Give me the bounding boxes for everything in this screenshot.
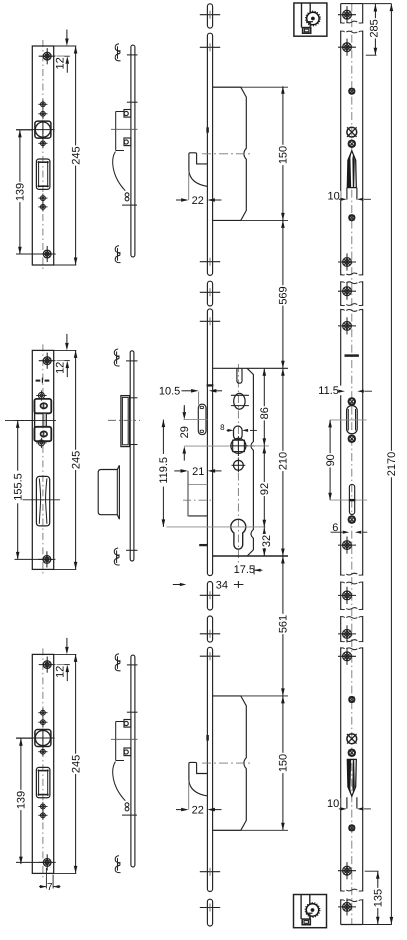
svg-text:10: 10 <box>327 798 339 810</box>
svg-text:245: 245 <box>70 451 82 469</box>
svg-text:210: 210 <box>278 452 290 470</box>
svg-text:22: 22 <box>192 195 204 207</box>
svg-text:10.5: 10.5 <box>159 386 180 398</box>
svg-text:139: 139 <box>15 183 27 201</box>
svg-text:32: 32 <box>261 535 273 547</box>
svg-text:22: 22 <box>192 805 204 817</box>
svg-text:90: 90 <box>325 454 337 466</box>
svg-text:135: 135 <box>373 889 385 907</box>
svg-text:12: 12 <box>54 362 66 374</box>
svg-text:34: 34 <box>216 580 228 592</box>
svg-text:29: 29 <box>179 426 191 438</box>
svg-text:245: 245 <box>70 755 82 773</box>
svg-text:150: 150 <box>278 754 290 772</box>
svg-text:11.5: 11.5 <box>318 385 339 397</box>
svg-text:119.5: 119.5 <box>158 457 170 484</box>
svg-text:569: 569 <box>278 286 290 304</box>
svg-text:86: 86 <box>259 407 271 419</box>
svg-text:139: 139 <box>16 791 28 809</box>
svg-text:17.5: 17.5 <box>234 564 255 576</box>
svg-text:92: 92 <box>259 483 271 495</box>
svg-text:10: 10 <box>327 191 339 203</box>
svg-text:12: 12 <box>54 57 66 69</box>
svg-text:8: 8 <box>220 423 225 432</box>
svg-text:21: 21 <box>192 466 204 478</box>
svg-text:155.5: 155.5 <box>12 473 24 501</box>
svg-text:245: 245 <box>70 146 82 164</box>
svg-text:561: 561 <box>278 615 290 633</box>
svg-text:12: 12 <box>54 666 66 678</box>
svg-text:7: 7 <box>47 882 53 893</box>
svg-text:150: 150 <box>278 146 290 164</box>
svg-text:2170: 2170 <box>386 452 398 476</box>
svg-text:285: 285 <box>369 19 381 37</box>
